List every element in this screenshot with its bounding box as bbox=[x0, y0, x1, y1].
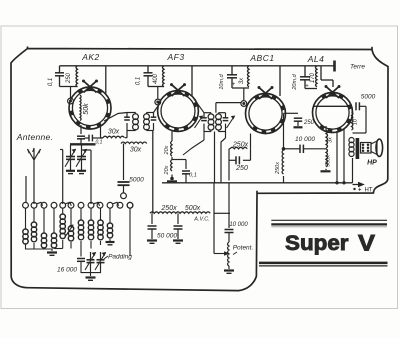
svg-text:50 000: 50 000 bbox=[157, 233, 177, 240]
svg-text:30x: 30x bbox=[108, 129, 120, 136]
svg-text:250x: 250x bbox=[275, 162, 281, 175]
svg-text:Padding: Padding bbox=[108, 254, 132, 261]
svg-text:0,1: 0,1 bbox=[96, 140, 103, 146]
svg-text:AK2: AK2 bbox=[81, 52, 100, 62]
svg-text:A.V.C.: A.V.C. bbox=[193, 217, 210, 223]
svg-text:3x: 3x bbox=[239, 77, 245, 84]
svg-text:10: 10 bbox=[353, 118, 359, 125]
svg-text:50k: 50k bbox=[83, 103, 90, 115]
svg-text:20x: 20x bbox=[164, 145, 170, 155]
svg-text:HT: HT bbox=[365, 188, 373, 194]
svg-text:30x: 30x bbox=[130, 147, 142, 154]
svg-text:HP: HP bbox=[367, 160, 377, 167]
svg-text:+: + bbox=[358, 188, 362, 194]
svg-text:16 000: 16 000 bbox=[57, 267, 77, 274]
svg-text:Super: Super bbox=[285, 232, 349, 255]
svg-text:250: 250 bbox=[235, 165, 248, 172]
svg-text:5000: 5000 bbox=[361, 94, 376, 101]
svg-text:AL4: AL4 bbox=[307, 54, 325, 64]
svg-text:250: 250 bbox=[303, 120, 315, 126]
svg-text:AF3: AF3 bbox=[166, 52, 184, 62]
svg-text:Potent.: Potent. bbox=[233, 245, 254, 252]
svg-text:Terre: Terre bbox=[350, 64, 365, 71]
svg-text:0,1: 0,1 bbox=[136, 77, 142, 85]
svg-text:+: + bbox=[232, 82, 236, 88]
svg-text:250x: 250x bbox=[160, 205, 177, 212]
svg-text:+: + bbox=[305, 84, 309, 90]
svg-text:20m,d: 20m,d bbox=[292, 73, 298, 90]
svg-text:20x: 20x bbox=[164, 165, 170, 175]
svg-text:250: 250 bbox=[66, 72, 72, 84]
svg-text:0,1: 0,1 bbox=[48, 78, 54, 86]
svg-text:500x: 500x bbox=[326, 155, 332, 167]
svg-text:10 000: 10 000 bbox=[295, 136, 315, 143]
svg-text:400: 400 bbox=[153, 73, 159, 84]
svg-text:10 000: 10 000 bbox=[229, 222, 248, 228]
svg-text:Antenne.: Antenne. bbox=[16, 132, 53, 142]
svg-text:170: 170 bbox=[310, 72, 316, 83]
svg-text:0,1: 0,1 bbox=[189, 173, 197, 179]
svg-text:10m,d: 10m,d bbox=[219, 73, 225, 89]
svg-text:ABC1: ABC1 bbox=[249, 53, 274, 63]
svg-text:5000: 5000 bbox=[129, 177, 144, 184]
svg-text:500x: 500x bbox=[185, 205, 201, 212]
svg-text:3x: 3x bbox=[328, 137, 334, 143]
svg-text:V: V bbox=[358, 231, 375, 256]
